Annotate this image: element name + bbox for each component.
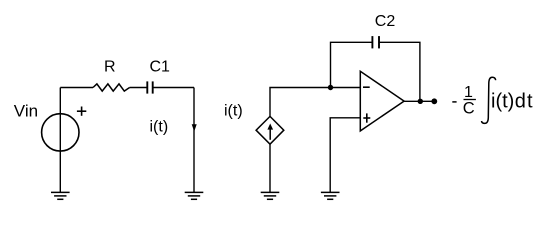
svg-text:1: 1 xyxy=(464,84,473,101)
svg-text:i(t): i(t) xyxy=(491,91,514,113)
svg-text:i(t): i(t) xyxy=(224,103,243,120)
svg-text:dt: dt xyxy=(515,91,534,113)
svg-text:C2: C2 xyxy=(375,13,396,30)
svg-text:i(t): i(t) xyxy=(150,118,169,135)
svg-text:C1: C1 xyxy=(150,58,171,75)
svg-text:R: R xyxy=(104,59,116,76)
svg-text:C: C xyxy=(463,100,475,118)
svg-text:Vin: Vin xyxy=(14,102,38,121)
